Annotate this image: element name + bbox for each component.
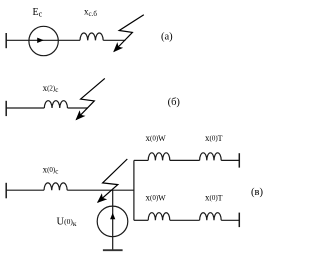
terminal bar B-left: [5, 101, 7, 116]
svg-text:(в): (в): [251, 187, 263, 198]
inductor xc.b L1: [80, 33, 103, 40]
ground bar of source: [103, 249, 123, 251]
terminal bar top branch: [238, 153, 240, 167]
svg-text:x(0)с: x(0)с: [43, 165, 59, 176]
inductor x(0)W top L4: [148, 153, 170, 161]
wire source drop: [112, 190, 114, 250]
fault bolt A: [114, 15, 144, 52]
svg-text:(б): (б): [168, 97, 181, 108]
inductor x(2)c L2: [44, 101, 67, 108]
inductor x(0)W bottom L6: [148, 213, 170, 221]
wire A main: [6, 39, 80, 41]
terminal bar bottom branch: [238, 213, 240, 228]
svg-text:x(0)Т: x(0)Т: [205, 133, 223, 143]
svg-text:x(0)Т: x(0)Т: [205, 193, 223, 203]
wire B main: [6, 107, 44, 109]
wire bottom branch right: [221, 219, 239, 221]
wire top branch right: [221, 159, 239, 161]
wire B right of inductor: [68, 107, 88, 109]
wire bottom branch left: [134, 219, 148, 221]
terminal bar A-left: [5, 33, 7, 48]
fault bolt B: [76, 78, 105, 119]
svg-text:xс.б: xс.б: [84, 7, 97, 18]
svg-text:Eс: Eс: [33, 7, 43, 19]
svg-text:x(2)с: x(2)с: [43, 83, 59, 94]
op source E circle U1: [29, 26, 58, 55]
svg-text:(а): (а): [161, 32, 173, 43]
inductor x(0)T top L5: [200, 153, 222, 161]
wire V main: [6, 189, 44, 191]
wire top branch mid: [170, 159, 200, 161]
junction rail node N1: [133, 160, 135, 220]
inductor x(0)T bottom L7: [200, 213, 222, 221]
svg-text:x(0)W: x(0)W: [146, 133, 167, 143]
svg-text:x(0)W: x(0)W: [146, 193, 167, 203]
fault bolt V: [98, 159, 128, 202]
source U(0)k circle U2: [97, 206, 128, 237]
wire top branch left: [134, 159, 148, 161]
arrowhead of source U(0)k: [110, 213, 115, 220]
svg-text:U(0)к: U(0)к: [57, 216, 77, 228]
wire bottom branch mid: [170, 219, 200, 221]
arrowhead of source E: [37, 38, 44, 43]
wire V mid: [67, 189, 134, 191]
wire A right of inductor: [103, 39, 125, 41]
terminal bar V-left: [5, 183, 7, 199]
inductor x(0)c L3: [44, 183, 67, 190]
